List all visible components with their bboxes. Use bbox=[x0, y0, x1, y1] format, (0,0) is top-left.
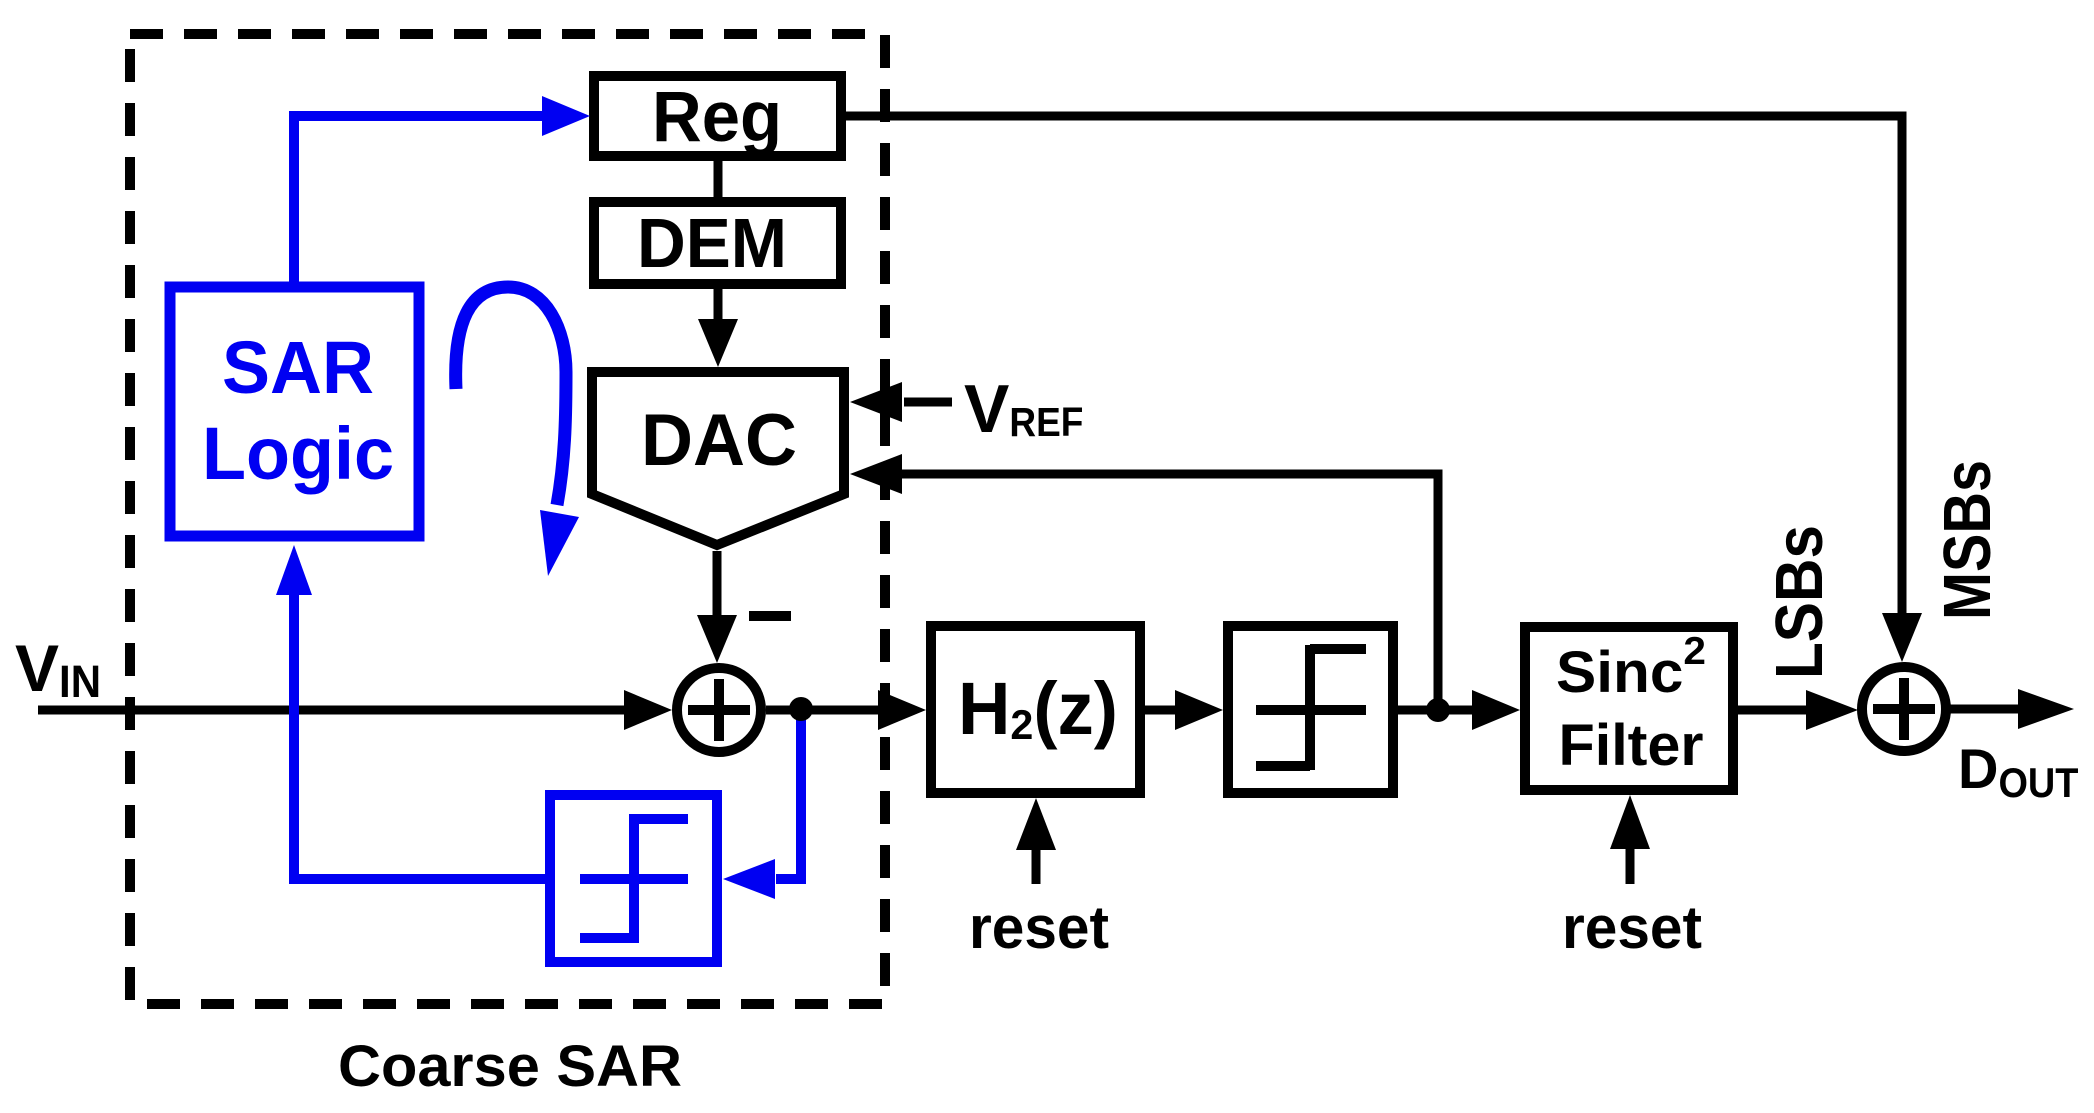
wire Reg to MSB summer bbox=[846, 116, 1922, 662]
block DEM bbox=[594, 202, 841, 284]
DAC block bbox=[592, 372, 844, 545]
VREF arrow into DAC bbox=[850, 382, 952, 422]
summing junction 2 bbox=[1862, 667, 1946, 751]
svg-text:LSBs: LSBs bbox=[1762, 525, 1837, 679]
quantizer block bbox=[1228, 626, 1393, 793]
svg-text:reset: reset bbox=[1562, 894, 1702, 961]
reset arrow into Sinc bbox=[1610, 795, 1650, 884]
reset arrow into H2 bbox=[1016, 798, 1056, 884]
wire quantizer to Sinc with node and arrow bbox=[1398, 690, 1520, 730]
blue loop arrow SAR to DAC bbox=[456, 287, 579, 576]
minus sign at summer bbox=[749, 611, 791, 621]
svg-text:Filter: Filter bbox=[1559, 713, 1704, 778]
wire summer to H2(z) with arrow bbox=[766, 690, 926, 730]
blue wire node to comparator bbox=[723, 704, 801, 899]
svg-text:H2(z): H2(z) bbox=[958, 667, 1118, 750]
output wire DOUT bbox=[1950, 689, 2074, 729]
blue wire comparator to SAR Logic bbox=[276, 545, 550, 879]
wire DEM to DAC with arrow bbox=[698, 289, 738, 367]
wire Reg to DEM bbox=[714, 161, 723, 197]
block H2(z) bbox=[931, 626, 1140, 793]
svg-text:DEM: DEM bbox=[637, 204, 787, 282]
blue comparator box bbox=[550, 795, 717, 962]
wire Sinc to MSB summer with arrow bbox=[1738, 690, 1858, 730]
svg-text:SAR: SAR bbox=[222, 326, 374, 409]
register Reg bbox=[594, 76, 841, 157]
SAR Logic block bbox=[170, 287, 419, 536]
blue wire SAR Logic to Reg bbox=[294, 96, 590, 285]
svg-text:Coarse SAR: Coarse SAR bbox=[338, 1034, 682, 1099]
wire VIN to summer bbox=[38, 690, 672, 730]
Sinc2 Filter block bbox=[1525, 627, 1733, 790]
feedback wire quantizer node to DAC bbox=[850, 454, 1438, 714]
svg-text:DAC: DAC bbox=[641, 400, 797, 481]
svg-text:Logic: Logic bbox=[202, 412, 394, 495]
node dot after summer bbox=[789, 697, 813, 721]
svg-text:Reg: Reg bbox=[652, 78, 782, 157]
node dot quantizer output bbox=[1426, 698, 1450, 722]
wire DAC to summer with arrow bbox=[697, 551, 737, 663]
svg-text:MSBs: MSBs bbox=[1930, 460, 2005, 620]
dashed boundary box Coarse SAR bbox=[130, 34, 885, 1004]
summing junction 1 bbox=[677, 668, 761, 752]
svg-text:reset: reset bbox=[969, 894, 1109, 961]
wire H2 to quantizer with arrow bbox=[1145, 690, 1223, 730]
